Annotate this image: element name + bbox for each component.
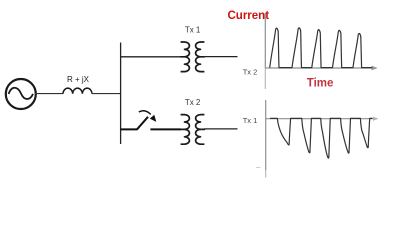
bottom graph time axis <box>266 118 374 120</box>
svg-text:Time: Time <box>307 78 334 90</box>
svg-text:Tx 1: Tx 1 <box>185 26 201 35</box>
switch S1 blade <box>137 117 148 130</box>
bottom graph left tick <box>256 167 261 169</box>
wire source to impedance <box>35 93 63 95</box>
bus bar node <box>120 43 122 145</box>
wire impedance to bus <box>92 93 121 95</box>
AC source G1 sine symbol <box>9 88 33 99</box>
transformer Tx2 secondary winding <box>196 115 205 145</box>
AC source G1 circle <box>6 79 36 109</box>
bottom graph inrush waveform Tx1 <box>270 118 372 158</box>
svg-text:Tx 2: Tx 2 <box>185 98 201 107</box>
top graph vertical axis <box>264 13 266 68</box>
inductor R+jX coil <box>63 88 92 94</box>
transformer Tx1 secondary winding <box>196 42 205 72</box>
switch S1 closing arrow <box>139 111 151 115</box>
wire Tx1 secondary output <box>204 56 238 58</box>
svg-text:Tx 2: Tx 2 <box>243 67 258 76</box>
bottom graph vertical axis <box>265 100 267 170</box>
transformer Tx2 primary winding <box>181 115 190 145</box>
top graph time axis <box>265 67 372 69</box>
top graph inrush waveform Tx2 <box>270 28 373 68</box>
wire Tx2 secondary output <box>204 128 238 130</box>
svg-text:Current: Current <box>228 10 270 22</box>
svg-text:Tx 1: Tx 1 <box>243 116 258 125</box>
svg-text:R + jX: R + jX <box>67 75 90 84</box>
wire switch to Tx2 <box>150 128 181 130</box>
transformer Tx1 primary winding <box>181 42 190 72</box>
wire top branch bus to Tx1 <box>121 56 181 58</box>
wire bottom branch bus to switch <box>121 128 137 130</box>
